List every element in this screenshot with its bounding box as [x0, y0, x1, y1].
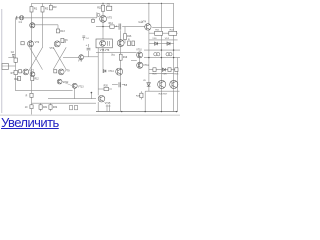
transistor VT12 small [57, 79, 62, 84]
capacitor C2 left column [12, 53, 15, 55]
wire vertical x145.2 output left leg [144, 91, 146, 111]
capacitor C8 output [118, 82, 120, 87]
transistor VT7 [23, 69, 29, 75]
capacitor C6 [118, 24, 120, 30]
svg-text:R25: R25 [174, 74, 179, 76]
svg-text:C4: C4 [86, 38, 90, 40]
connector circle [97, 13, 100, 16]
wire output bottom rail y111.6 [96, 111, 178, 113]
transistor VT17 output [170, 80, 178, 88]
transistor VT11 driver [137, 62, 143, 68]
wire vertical x88.5 cap stub [88, 44, 90, 47]
wire vertical x42.5 [42, 3, 44, 47]
svg-text:R20: R20 [104, 85, 109, 87]
wire y57.6 left to VT6a [63, 57, 79, 59]
svg-text:R3: R3 [53, 5, 57, 9]
svg-text:VT5.VT6: VT5.VT6 [100, 49, 110, 52]
svg-text:R1: R1 [34, 6, 38, 10]
transistor VT16 output [158, 80, 166, 88]
wire right rail y50 [144, 49, 180, 51]
svg-text:R10: R10 [14, 79, 19, 81]
transistor VT1 [30, 23, 35, 28]
node top rail [102, 3, 103, 4]
wire vertical x96.9 stub [96, 12, 98, 18]
resistor R21 [155, 31, 163, 35]
transistor VT10 driver [137, 52, 143, 58]
wire input rail y18 [16, 17, 97, 19]
wire VT4 emitter y27.7 [152, 27, 173, 29]
resistor R8 base [19, 70, 22, 73]
resistor R12 below [31, 76, 34, 80]
transistor VT5 [100, 16, 107, 23]
page left border [1, 9, 3, 113]
junction node at x103 y26.5 [102, 26, 103, 27]
resistor R25 [175, 68, 178, 72]
wire left lower rail y98.7 [48, 98, 96, 100]
wire top supply rail [32, 2, 174, 4]
capacitor C1 input [19, 16, 23, 20]
thermistor pair b [166, 53, 169, 56]
wire left bottom rail y103.2 [32, 102, 97, 104]
wire left area y57.6 from input box [8, 57, 15, 59]
resistor R28 bottom right [140, 93, 143, 97]
wire VT13 link [62, 82, 72, 86]
resistor R13 hanging [56, 29, 59, 33]
wire VT7 base row y66 from box [8, 65, 15, 67]
wire left mid rail y25 [32, 24, 59, 26]
node bottom rail junctions [121, 111, 122, 112]
wire right output rail y91 [145, 90, 179, 92]
svg-text:R14: R14 [109, 23, 114, 25]
resistor R2 [41, 7, 44, 13]
resistor R17 [128, 41, 131, 46]
svg-text:R13: R13 [60, 30, 65, 33]
wire vertical x58 stub [57, 25, 59, 29]
wire cap to base [24, 17, 32, 19]
svg-text:R6: R6 [65, 39, 69, 42]
svg-text:VT10: VT10 [136, 50, 142, 52]
IC box optopair [96, 39, 112, 48]
svg-text:C2: C2 [11, 51, 15, 54]
wire vertical x50.5 resistor drop [50, 103, 52, 105]
resistor R9 base [54, 70, 57, 73]
capacitor C4 small above box [82, 35, 85, 37]
transistor VT2 [28, 41, 34, 47]
input jack box [2, 63, 8, 69]
svg-text:VT5: VT5 [107, 17, 112, 20]
wire right rail y57.6 [144, 57, 180, 59]
transistor VT6 in box [100, 40, 106, 46]
diode VD4 [167, 42, 170, 45]
ground ticks above border [106, 105, 108, 112]
transistor VT8 VAS [117, 40, 124, 47]
resistor R11 [101, 5, 104, 11]
wire vertical x93 stub under rail [92, 18, 94, 20]
resistor R1 [30, 7, 33, 13]
wire vertical x161.4 right column B [160, 3, 162, 111]
resistor R3 [49, 5, 52, 9]
svg-text:VT9: VT9 [65, 70, 70, 73]
wire vertical x103 second stage column [102, 3, 104, 73]
svg-text:R: R [26, 95, 28, 97]
wire crossover X right pair [53, 47, 66, 69]
transistor VT15 bottom [98, 95, 105, 102]
resistor R10 below VT7 [18, 76, 21, 80]
wire vertical x177.5 right edge stub [177, 58, 179, 112]
svg-text:R26 R27: R26 R27 [159, 94, 168, 96]
wire vertical x98.2 to VT11 [97, 48, 99, 96]
diode VD3 [155, 42, 158, 45]
wire vertical x120.7 VAS column [120, 30, 122, 111]
svg-text:10: 10 [25, 107, 28, 109]
resistor R24 [168, 68, 171, 72]
svg-text:R2: R2 [45, 6, 49, 10]
resistor R18 [132, 41, 135, 46]
resistor R4 base [21, 42, 24, 45]
svg-text:Ucc: Ucc [111, 55, 116, 57]
wire vertical x125 stub [124, 27, 126, 34]
wire vertical x15.5 input column [15, 18, 17, 91]
capacitor C7 [87, 47, 91, 49]
page bottom border of schematic [0, 114, 180, 116]
wire mid rail y52.4 left of VT8 [96, 51, 121, 53]
transistor VT3 [54, 41, 60, 47]
wire y89 to output [98, 88, 112, 90]
resistor R32 hanging [49, 105, 52, 110]
capacitor C5 [107, 6, 112, 10]
wire vertical x40.6 resistor drop [40, 103, 42, 105]
wire bottom drive y90.7 [16, 90, 73, 92]
wire vertical x139.4 driver pair link [138, 52, 140, 68]
svg-text:VT15: VT15 [105, 102, 111, 105]
svg-text:R11: R11 [97, 7, 102, 10]
resistor R7 lower on left column [14, 70, 17, 74]
wire middle feed right of C y26.5 [122, 26, 145, 28]
transistor VT9 [58, 69, 64, 75]
wire vertical x74.7 under VT [74, 88, 76, 99]
thermistor pair a [154, 53, 157, 56]
svg-text:R31: R31 [43, 107, 48, 109]
wire right resistor row y33 [149, 32, 178, 34]
svg-text:C8: C8 [124, 84, 128, 87]
svg-text:+: + [115, 24, 117, 28]
svg-text:VT11: VT11 [143, 65, 149, 67]
wire output coupling y84.7 [112, 84, 118, 86]
wire vertical x50.8 stub [50, 3, 52, 5]
resistor R14 horizontal [110, 25, 114, 28]
link Увеличить [1, 115, 59, 130]
svg-text:VD: VD [143, 80, 146, 82]
wire y52.4 to VT pair [121, 51, 137, 53]
diode VD6 vertical [147, 83, 151, 87]
resistor R15 stub box [92, 19, 95, 22]
wire vertical x98.2 below VT11 [97, 102, 99, 112]
svg-text:VD5: VD5 [162, 74, 167, 76]
resistor R29 on x31.5 [30, 93, 33, 97]
wire y60.4 feedback [131, 59, 137, 61]
output terminal marks [70, 105, 73, 109]
wire right component row y69.6 [149, 69, 178, 71]
resistor R23 [153, 68, 156, 72]
wire right driver row y73.5 [149, 73, 174, 75]
svg-text:VT14: VT14 [108, 71, 114, 73]
resistor R19 on VAS column [119, 54, 122, 60]
wire x141.4 stub [140, 91, 142, 93]
wire middle feed y26.5 [96, 26, 119, 28]
wire vertical x148.9 right column A [148, 3, 150, 23]
svg-text:R32: R32 [53, 107, 58, 109]
transistor VT4 current source [145, 24, 151, 30]
svg-text:VT6: VT6 [78, 60, 83, 62]
svg-text:R19: R19 [123, 57, 128, 59]
svg-text:VT4: VT4 [142, 20, 147, 23]
svg-text:R23: R23 [153, 74, 158, 76]
svg-text:VT13: VT13 [78, 86, 84, 88]
wire vertical x91.4 stub [90, 93, 92, 99]
diode VD1 small [104, 70, 106, 73]
node x91 y92.6 [91, 92, 93, 94]
wire vertical x31.5 main left column [31, 3, 33, 114]
resistor R30 below rail [30, 105, 33, 109]
resistor R20 horizontal [104, 87, 109, 90]
resistor R16 vertical [124, 34, 127, 40]
transistor VT8 lower [30, 72, 35, 77]
node right rails [161, 49, 162, 50]
svg-text:C1: C1 [19, 20, 23, 24]
wire vertical x173.6 right column C [173, 3, 175, 111]
wire crossover X left pair [30, 47, 43, 69]
wire right diode row y43.5 [149, 43, 174, 45]
svg-text:R12: R12 [35, 79, 40, 81]
transistor VT14 big [116, 68, 123, 75]
resistor R5 on left column [14, 58, 17, 62]
resistor R31 hanging [39, 105, 42, 110]
svg-text:R16: R16 [127, 36, 132, 38]
transistor VT13 small [72, 83, 77, 88]
wire right rail y40 [149, 39, 178, 41]
transistor VT6a [79, 55, 84, 60]
svg-text:VT2: VT2 [35, 41, 40, 44]
input terminal [16, 16, 18, 20]
resistor R6 [61, 38, 64, 42]
resistor R22 [169, 31, 177, 35]
svg-text:+: + [86, 43, 88, 47]
diode VD5 [162, 68, 165, 71]
wire y56.8 mid [84, 56, 98, 58]
